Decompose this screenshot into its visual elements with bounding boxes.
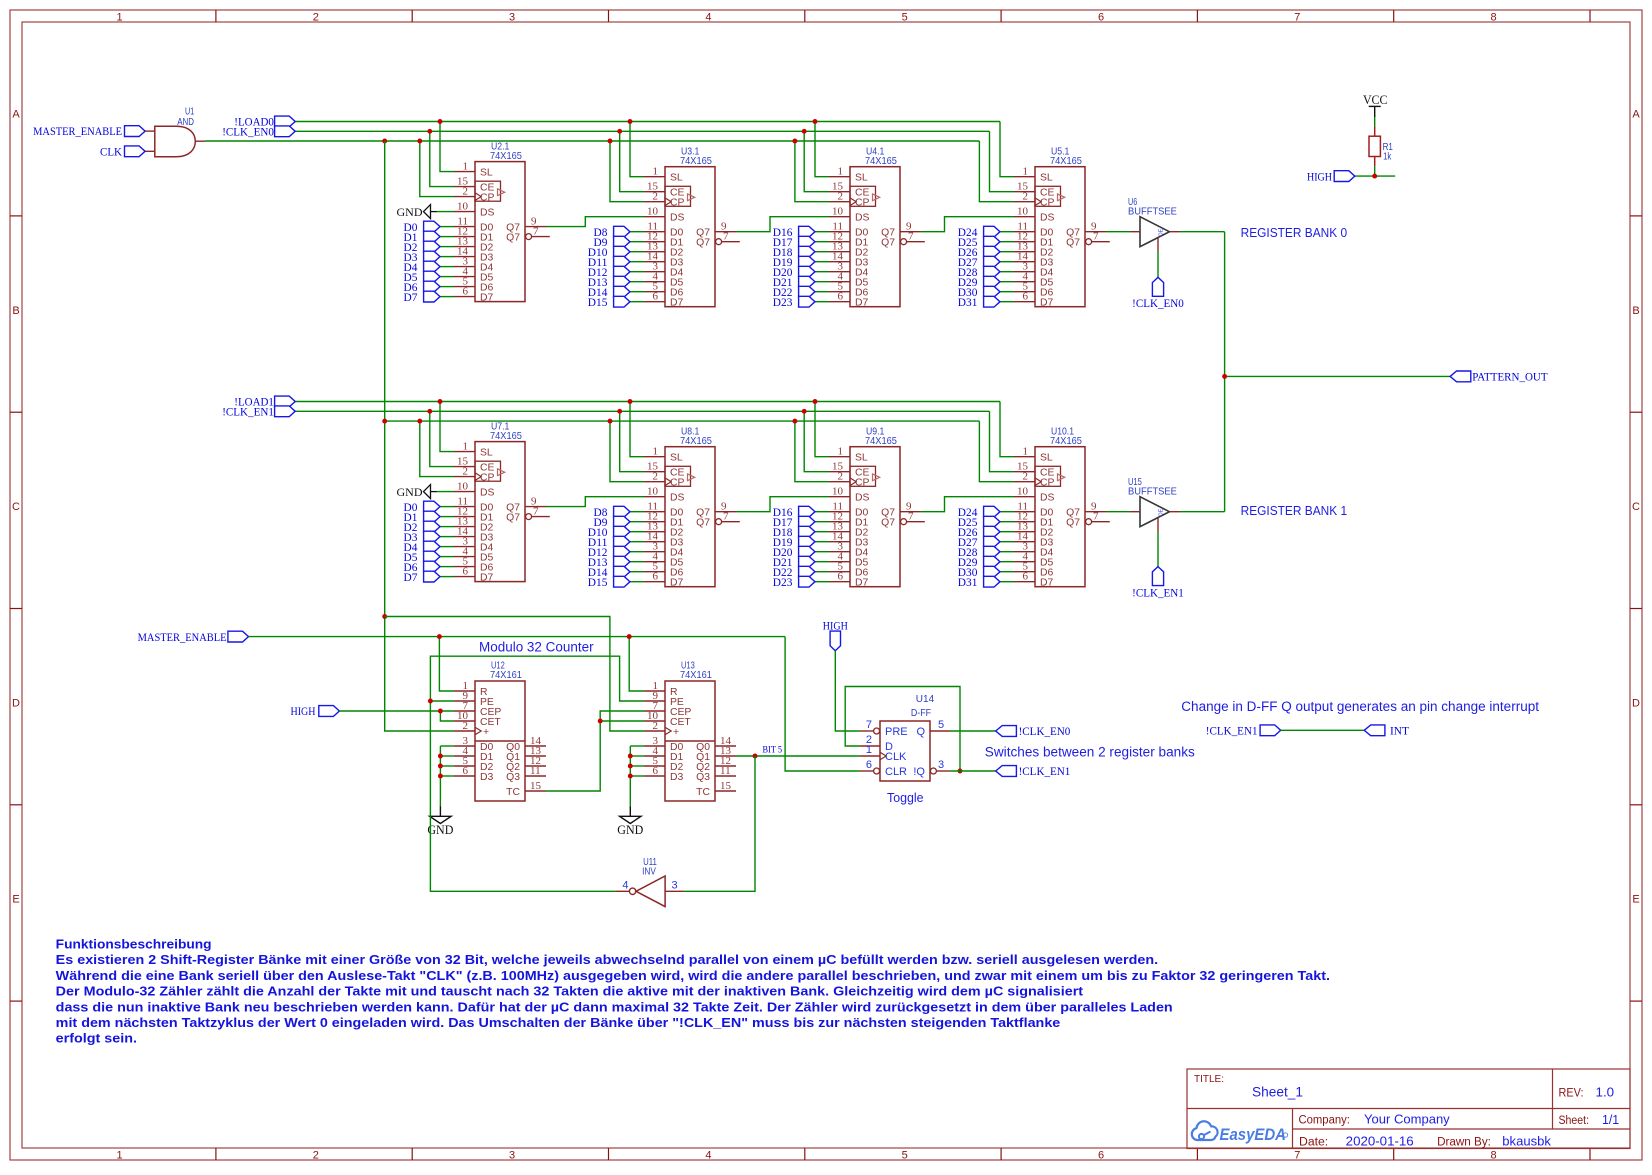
input flag D17 xyxy=(773,516,829,529)
svg-text:7: 7 xyxy=(1093,231,1099,243)
svg-text:D7: D7 xyxy=(404,572,418,584)
svg-text:SL: SL xyxy=(1040,453,1053,464)
svg-text:6: 6 xyxy=(1023,571,1029,583)
input flag D0 xyxy=(404,501,455,514)
svg-text:2: 2 xyxy=(1023,471,1029,483)
svg-text:!CLK_EN0: !CLK_EN0 xyxy=(1132,298,1184,310)
svg-text:11: 11 xyxy=(530,765,541,777)
wire net PATTERN_OUT xyxy=(1180,232,1450,512)
output flag !CLK_EN0 (D-FF Q) xyxy=(996,726,1071,738)
svg-text:CLR: CLR xyxy=(885,766,907,778)
input flag D5 xyxy=(404,551,455,564)
svg-text:15: 15 xyxy=(530,780,542,792)
svg-text:EasyEDA: EasyEDA xyxy=(1220,1126,1286,1144)
inverter U11 (INV) xyxy=(615,857,684,906)
svg-text:Der Modulo-32 Zähler zählt die: Der Modulo-32 Zähler zählt die Anzahl de… xyxy=(56,984,1084,999)
svg-text:1: 1 xyxy=(463,160,469,172)
svg-text:6: 6 xyxy=(653,765,659,777)
svg-text:D3: D3 xyxy=(670,772,684,783)
shift register U4.1 (74X165) xyxy=(829,146,925,308)
svg-text:7: 7 xyxy=(533,505,539,517)
input flag D19 xyxy=(773,536,829,549)
svg-text:E: E xyxy=(1632,894,1639,906)
svg-text:BUFFTSEE: BUFFTSEE xyxy=(1128,487,1177,498)
svg-text:C: C xyxy=(12,501,20,513)
annotation REGISTER BANK 1 xyxy=(1241,503,1348,518)
svg-text:E: E xyxy=(12,894,19,906)
svg-text:CP: CP xyxy=(855,198,870,209)
svg-text:Modulo 32 Counter: Modulo 32 Counter xyxy=(479,640,594,655)
svg-text:DS: DS xyxy=(855,213,870,224)
input flag D23 xyxy=(773,576,829,589)
buffer U15 (BUFFTSEE) xyxy=(1128,477,1180,531)
wire D-FF feedback !Q to D xyxy=(845,687,962,774)
D flip-flop U14 (D-FF) xyxy=(860,694,950,781)
svg-text:SL: SL xyxy=(855,173,868,184)
svg-text:2: 2 xyxy=(313,12,319,24)
svg-text:Change in D-FF Q output genera: Change in D-FF Q output generates an pin… xyxy=(1181,699,1539,714)
input flag D27 xyxy=(958,536,1014,549)
input flag D22 xyxy=(773,566,829,579)
output flag INT xyxy=(1364,725,1409,738)
svg-text:Your Company: Your Company xyxy=(1364,1112,1450,1127)
wire net !CLK_EN0 bus xyxy=(295,129,1014,192)
wire D-FF !Q to flag xyxy=(950,770,996,772)
svg-text:SL: SL xyxy=(670,173,683,184)
counter U13 (74X161) xyxy=(644,661,736,801)
input flag D3 xyxy=(404,531,455,544)
wire R1 to HIGH net xyxy=(1355,166,1395,178)
shift register U5.1 (74X165) xyxy=(1014,146,1110,308)
input flag D1 xyxy=(404,511,455,524)
svg-text:!Q: !Q xyxy=(913,766,925,778)
svg-text:D7: D7 xyxy=(480,293,494,304)
input flag D23 xyxy=(773,296,829,309)
power symbol VCC xyxy=(1363,93,1388,117)
svg-text:TITLE:: TITLE: xyxy=(1194,1073,1224,1085)
shift register U7.1 (74X165) xyxy=(454,421,550,583)
svg-text:Q7: Q7 xyxy=(881,518,895,529)
svg-text:DS: DS xyxy=(1040,213,1055,224)
svg-text:Q7: Q7 xyxy=(881,238,895,249)
input flag !LOAD1 xyxy=(234,396,295,409)
svg-text:GND: GND xyxy=(617,823,643,837)
svg-text:TC: TC xyxy=(506,787,520,798)
svg-text:10: 10 xyxy=(647,206,659,218)
output flag !CLK_EN1 (D-FF !Q) xyxy=(996,766,1071,778)
svg-text:5: 5 xyxy=(938,719,944,731)
input flag D19 xyxy=(773,256,829,269)
svg-text:Q3: Q3 xyxy=(506,772,520,783)
svg-text:2: 2 xyxy=(653,471,659,483)
svg-text:D7: D7 xyxy=(404,292,418,304)
svg-text:74X161: 74X161 xyxy=(680,670,712,681)
input flag D15 xyxy=(588,296,644,309)
svg-text:6: 6 xyxy=(463,565,469,577)
wire D-FF Q to flag xyxy=(950,730,996,732)
svg-text:2: 2 xyxy=(463,185,469,197)
svg-text:D23: D23 xyxy=(773,577,793,589)
svg-text:Switches between 2 register ba: Switches between 2 register banks xyxy=(985,745,1195,760)
svg-text:D31: D31 xyxy=(958,577,978,589)
svg-text:OE: OE xyxy=(1159,508,1165,516)
input flag CLK xyxy=(100,146,145,158)
svg-text:74X165: 74X165 xyxy=(680,156,712,167)
svg-text:7: 7 xyxy=(908,511,914,523)
wire net CLK bank1 bus xyxy=(385,419,1014,482)
svg-text:DS: DS xyxy=(1040,493,1055,504)
wire net !LOAD1 bus xyxy=(295,399,1014,457)
EasyEDA logo xyxy=(1192,1121,1288,1144)
svg-text:15: 15 xyxy=(720,780,732,792)
svg-text:10: 10 xyxy=(832,486,844,498)
svg-text:erfolgt sein.: erfolgt sein. xyxy=(56,1031,137,1046)
svg-text:CP: CP xyxy=(480,193,495,204)
wire net !LOAD0 bus xyxy=(295,119,1014,177)
svg-text:10: 10 xyxy=(457,480,469,492)
input flag D1 xyxy=(404,231,455,244)
svg-text:74X165: 74X165 xyxy=(490,431,522,442)
svg-text:2020-01-16: 2020-01-16 xyxy=(1346,1134,1414,1149)
svg-text:HIGH: HIGH xyxy=(291,706,316,718)
svg-text:1k: 1k xyxy=(1383,152,1392,163)
annotation Change in D-FF Q output generates an pin change interrupt xyxy=(1181,699,1539,714)
annotation Switches between 2 register banks xyxy=(985,745,1195,760)
svg-text:Q: Q xyxy=(916,726,925,738)
buffer U6 (BUFFTSEE) xyxy=(1128,197,1180,251)
svg-text:2: 2 xyxy=(1023,191,1029,203)
svg-text:Company:: Company: xyxy=(1299,1115,1350,1127)
svg-text:B: B xyxy=(1632,305,1639,317)
input flag D9 xyxy=(594,516,645,529)
svg-text:+: + xyxy=(483,727,489,738)
wire VCC to R1 xyxy=(1374,117,1376,127)
wire serial chain bank1 xyxy=(546,497,1130,512)
input flag D18 xyxy=(773,526,829,539)
svg-text:Drawn By:: Drawn By: xyxy=(1437,1137,1491,1149)
wire net !CLK_EN1 bus xyxy=(295,409,1014,472)
svg-text:VCC: VCC xyxy=(1363,93,1388,107)
svg-text:1.0: 1.0 xyxy=(1596,1085,1615,1100)
svg-text:INT: INT xyxy=(1390,726,1409,738)
svg-text:GND: GND xyxy=(427,823,453,837)
wire net HIGH to U12 CEP/CET xyxy=(339,709,454,721)
input flag MASTER_ENABLE (counter) xyxy=(138,631,249,644)
svg-text:1/1: 1/1 xyxy=(1602,1112,1619,1127)
input flag D30 xyxy=(958,566,1014,579)
svg-text:Q7: Q7 xyxy=(506,233,520,244)
svg-text:1: 1 xyxy=(653,446,659,458)
svg-text:2: 2 xyxy=(838,191,844,203)
svg-text:CP: CP xyxy=(670,478,685,489)
svg-text:2: 2 xyxy=(653,191,659,203)
input flag D4 xyxy=(404,541,455,554)
svg-text:CP: CP xyxy=(480,473,495,484)
svg-text:SL: SL xyxy=(670,453,683,464)
wire HIGH to D-FF PRE xyxy=(835,651,860,731)
svg-text:Während die eine Bank seriell: Während die eine Bank seriell über den A… xyxy=(56,968,1330,983)
input flag !CLK_EN1 xyxy=(222,406,295,419)
input flag D12 xyxy=(588,266,644,279)
svg-text:REV:: REV: xyxy=(1559,1088,1584,1100)
input flag D25 xyxy=(958,516,1014,529)
input flag D24 xyxy=(958,226,1014,239)
svg-text:6: 6 xyxy=(1098,1150,1104,1162)
input flag D20 xyxy=(773,266,829,279)
svg-text:HIGH: HIGH xyxy=(1307,171,1332,183)
svg-text:CLK: CLK xyxy=(100,146,123,158)
svg-text:mit dem nächsten Taktzyklus de: mit dem nächsten Taktzyklus der Wert 0 e… xyxy=(56,1015,1061,1030)
svg-text:7: 7 xyxy=(1294,1150,1300,1162)
svg-text:!CLK_EN1: !CLK_EN1 xyxy=(222,407,274,419)
svg-text:SL: SL xyxy=(480,168,493,179)
input flag HIGH (pull-up) xyxy=(1307,171,1355,184)
annotation REGISTER BANK 0 xyxy=(1241,225,1348,240)
svg-text:6: 6 xyxy=(838,571,844,583)
input flag D29 xyxy=(958,276,1014,289)
svg-text:!CLK_EN1: !CLK_EN1 xyxy=(1132,588,1184,600)
input flag D31 xyxy=(958,296,1014,309)
svg-text:D: D xyxy=(12,697,20,709)
counter U12 (74X161) xyxy=(454,661,546,801)
svg-text:7: 7 xyxy=(908,231,914,243)
svg-text:Q7: Q7 xyxy=(696,238,710,249)
input flag D26 xyxy=(958,246,1014,259)
svg-text:6: 6 xyxy=(1098,12,1104,24)
svg-text:DS: DS xyxy=(480,488,495,499)
input flag D7 xyxy=(404,571,455,584)
svg-text:Q7: Q7 xyxy=(1066,518,1080,529)
svg-text:10: 10 xyxy=(832,206,844,218)
svg-text:CLK: CLK xyxy=(885,751,907,763)
svg-text:D15: D15 xyxy=(588,577,608,589)
svg-text:D7: D7 xyxy=(670,578,684,589)
svg-text:7: 7 xyxy=(723,231,729,243)
AND gate U1 xyxy=(145,107,205,157)
svg-text:D-FF: D-FF xyxy=(911,708,931,719)
input flag D7 xyxy=(404,291,455,304)
svg-text:5: 5 xyxy=(902,12,908,24)
input flag D4 xyxy=(404,261,455,274)
svg-text:1: 1 xyxy=(116,12,122,24)
svg-text:7: 7 xyxy=(1294,12,1300,24)
svg-text:!CLK_EN0: !CLK_EN0 xyxy=(222,127,274,139)
text block Funktionsbeschreibung xyxy=(56,937,1330,1046)
svg-text:11: 11 xyxy=(720,765,731,777)
svg-text:74X165: 74X165 xyxy=(490,151,522,162)
input flag D0 xyxy=(404,221,455,234)
input flag !CLK_EN0 xyxy=(222,126,295,139)
input flag D18 xyxy=(773,246,829,259)
svg-text:DS: DS xyxy=(670,213,685,224)
GND net flag (DS of U2.1) xyxy=(397,205,455,219)
output flag PATTERN_OUT xyxy=(1450,371,1548,384)
svg-text:3: 3 xyxy=(938,759,944,771)
svg-text:10: 10 xyxy=(1017,206,1029,218)
svg-text:D31: D31 xyxy=(958,297,978,309)
svg-text:BUFFTSEE: BUFFTSEE xyxy=(1128,207,1177,218)
svg-text:Date:: Date: xyxy=(1299,1137,1328,1149)
svg-text:2: 2 xyxy=(653,720,659,732)
svg-text:PATTERN_OUT: PATTERN_OUT xyxy=(1472,372,1547,384)
input flag HIGH (counter enables) xyxy=(291,706,340,719)
svg-text:dass die nun inaktive Bank neu: dass die nun inaktive Bank neu beschrieb… xyxy=(56,999,1173,1014)
input flag D22 xyxy=(773,286,829,299)
input flag D9 xyxy=(594,236,645,249)
svg-text:1: 1 xyxy=(463,440,469,452)
input flag D15 xyxy=(588,576,644,589)
svg-text:2: 2 xyxy=(313,1150,319,1162)
svg-text:MASTER_ENABLE: MASTER_ENABLE xyxy=(138,632,227,644)
svg-text:DS: DS xyxy=(855,493,870,504)
input flag D28 xyxy=(958,266,1014,279)
wire U13 D0-D3 to GND xyxy=(628,746,644,807)
resistor R1 1k xyxy=(1369,127,1393,166)
shift register U2.1 (74X165) xyxy=(454,141,550,303)
input flag D6 xyxy=(404,561,455,574)
wire U12 D0-D3 to GND xyxy=(438,746,454,807)
svg-text:BIT 5: BIT 5 xyxy=(763,746,783,756)
svg-text:GND: GND xyxy=(397,485,423,499)
svg-text:10: 10 xyxy=(457,200,469,212)
svg-text:Funktionsbeschreibung: Funktionsbeschreibung xyxy=(56,937,212,952)
svg-text:5: 5 xyxy=(902,1150,908,1162)
input flag D25 xyxy=(958,236,1014,249)
svg-text:7: 7 xyxy=(1093,511,1099,523)
wire net CLK vertical trunk xyxy=(382,141,644,731)
svg-text:1: 1 xyxy=(1023,446,1029,458)
svg-text:CP: CP xyxy=(1040,198,1055,209)
svg-text:8: 8 xyxy=(1491,12,1497,24)
input flag D10 xyxy=(588,246,644,259)
input flag D8 xyxy=(594,506,645,519)
svg-text:D15: D15 xyxy=(588,297,608,309)
input flag D28 xyxy=(958,546,1014,559)
svg-text:4: 4 xyxy=(705,1150,711,1162)
input flag !CLK_EN1 (interrupt source) xyxy=(1206,725,1281,738)
svg-text:6: 6 xyxy=(838,291,844,303)
input flag D17 xyxy=(773,236,829,249)
wire net BIT5 (U13 Q1 to D-FF CLK and INV) xyxy=(684,754,860,892)
svg-text:74X165: 74X165 xyxy=(865,436,897,447)
input flag D26 xyxy=(958,526,1014,539)
annotation Toggle xyxy=(887,790,924,805)
svg-text:AND: AND xyxy=(177,117,194,128)
input flag D10 xyxy=(588,526,644,539)
svg-text:A: A xyxy=(1632,109,1640,121)
input flag D21 xyxy=(773,276,829,289)
input flag D24 xyxy=(958,506,1014,519)
input flag D21 xyxy=(773,556,829,569)
svg-text:MASTER_ENABLE: MASTER_ENABLE xyxy=(33,126,122,138)
svg-text:U14: U14 xyxy=(916,694,935,705)
svg-text:Q7: Q7 xyxy=(696,518,710,529)
svg-text:DS: DS xyxy=(670,493,685,504)
svg-text:D3: D3 xyxy=(480,772,494,783)
input flag D31 xyxy=(958,576,1014,589)
wire U12 TC to U13 CEP/CET xyxy=(546,711,644,791)
svg-text:PRE: PRE xyxy=(885,726,908,738)
shift register U9.1 (74X165) xyxy=(829,426,925,588)
input flag D2 xyxy=(404,241,455,254)
svg-text:6: 6 xyxy=(866,759,872,771)
svg-text:74X165: 74X165 xyxy=(1050,156,1082,167)
svg-text:10: 10 xyxy=(1017,486,1029,498)
svg-text:1: 1 xyxy=(653,166,659,178)
ground symbol GND (U12) xyxy=(427,807,453,838)
svg-text:7: 7 xyxy=(723,511,729,523)
svg-text:REGISTER BANK 0: REGISTER BANK 0 xyxy=(1241,225,1348,240)
svg-text:+: + xyxy=(673,727,679,738)
input flag D14 xyxy=(588,286,644,299)
svg-text:2: 2 xyxy=(838,471,844,483)
svg-text:D7: D7 xyxy=(855,578,869,589)
svg-text:!CLK_EN1: !CLK_EN1 xyxy=(1019,766,1071,778)
svg-text:bkausbk: bkausbk xyxy=(1502,1134,1551,1149)
svg-text:3: 3 xyxy=(509,1150,515,1162)
svg-text:2: 2 xyxy=(463,465,469,477)
svg-text:2: 2 xyxy=(463,720,469,732)
annotation Modulo 32 Counter xyxy=(479,640,594,655)
svg-text:Toggle: Toggle xyxy=(887,790,924,805)
input flag D11 xyxy=(588,256,644,269)
svg-text:!CLK_EN1: !CLK_EN1 xyxy=(1206,726,1258,738)
svg-text:D: D xyxy=(1632,697,1640,709)
wire !CLK_EN1 to INT xyxy=(1281,729,1365,731)
svg-text:D7: D7 xyxy=(670,298,684,309)
svg-text:Q7: Q7 xyxy=(1066,238,1080,249)
svg-text:1: 1 xyxy=(838,446,844,458)
svg-text:7: 7 xyxy=(866,719,872,731)
svg-text:74X165: 74X165 xyxy=(1050,436,1082,447)
input flag D20 xyxy=(773,546,829,559)
wire serial chain bank0 xyxy=(546,217,1130,232)
input flag !LOAD0 xyxy=(234,116,295,129)
svg-text:DS: DS xyxy=(480,208,495,219)
svg-text:CP: CP xyxy=(670,198,685,209)
svg-text:74X165: 74X165 xyxy=(680,436,712,447)
svg-text:8: 8 xyxy=(1491,1150,1497,1162)
net label BIT 5 xyxy=(763,746,783,756)
title block xyxy=(1187,1069,1630,1149)
shift register U3.1 (74X165) xyxy=(644,146,740,308)
svg-text:1: 1 xyxy=(1023,166,1029,178)
svg-text:74X161: 74X161 xyxy=(490,670,522,681)
svg-text:D7: D7 xyxy=(480,573,494,584)
svg-text:6: 6 xyxy=(1023,291,1029,303)
wire U6 enable to flag xyxy=(1157,252,1159,278)
svg-text:6: 6 xyxy=(463,765,469,777)
input flag D2 xyxy=(404,521,455,534)
svg-text:GND: GND xyxy=(397,205,423,219)
input flag HIGH (D-FF preset) xyxy=(823,620,848,651)
svg-text:D7: D7 xyxy=(855,298,869,309)
input flag D14 xyxy=(588,566,644,579)
svg-text:D7: D7 xyxy=(1040,578,1054,589)
shift register U10.1 (74X165) xyxy=(1014,426,1110,588)
svg-text:SL: SL xyxy=(480,448,493,459)
svg-text:TC: TC xyxy=(696,787,710,798)
svg-text:3: 3 xyxy=(672,880,678,892)
svg-text:74X165: 74X165 xyxy=(865,156,897,167)
svg-text:D23: D23 xyxy=(773,297,793,309)
svg-text:4: 4 xyxy=(622,880,628,892)
svg-text:10: 10 xyxy=(647,486,659,498)
wire net CLK bank0 bus (AND output) xyxy=(205,139,1014,202)
svg-text:CP: CP xyxy=(1040,478,1055,489)
svg-text:SL: SL xyxy=(855,453,868,464)
net flag !CLK_EN1 (U15 enable) xyxy=(1132,567,1184,600)
